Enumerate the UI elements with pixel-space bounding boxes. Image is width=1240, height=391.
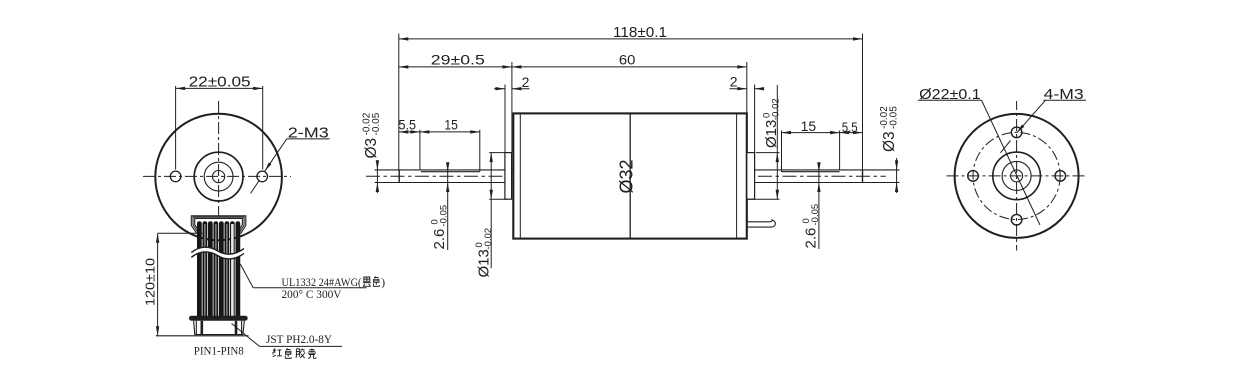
right boss ring (747, 153, 755, 200)
svg-text:2.6: 2.6 (431, 229, 448, 250)
svg-text:): ) (381, 277, 385, 289)
horizontal centerline (143, 175, 291, 177)
svg-text:JST PH2.0-8Y: JST PH2.0-8Y (266, 334, 333, 346)
connector top bar (192, 316, 246, 321)
svg-text:5.5: 5.5 (399, 117, 417, 132)
glyph 色 (2) (285, 349, 291, 359)
svg-text:5.5: 5.5 (842, 120, 858, 135)
right can seam (736, 113, 738, 238)
svg-text:Ø3: Ø3 (363, 138, 380, 159)
vertical centerline (218, 101, 220, 222)
svg-text:Ø22±0.1: Ø22±0.1 (919, 86, 981, 103)
svg-text:Ø32: Ø32 (616, 159, 636, 193)
boss circle (993, 152, 1041, 200)
dim 29±0.5 and 60 (399, 62, 747, 153)
svg-text:2: 2 (522, 74, 530, 90)
extension line right (262, 86, 264, 170)
cable break wave (191, 247, 244, 259)
shaft circle (213, 171, 225, 183)
dim Ø13 left (489, 153, 506, 268)
bearing circle (204, 162, 233, 191)
glyph 黑 (363, 277, 371, 286)
left shaft top edge + extension (375, 169, 514, 171)
dim Ø3 left (376, 160, 378, 193)
dash through top hole (1001, 141, 1011, 153)
left boss ring (505, 153, 512, 200)
dim 2.6 left (447, 163, 449, 250)
mounting hole right (257, 171, 268, 182)
main centerline (366, 175, 886, 177)
hole top (1011, 127, 1022, 138)
wire band (8 wires) (197, 221, 240, 317)
extension line left (175, 86, 177, 170)
dim 2 right (730, 85, 764, 153)
boss circle (194, 152, 243, 201)
baseline under connector (156, 335, 249, 337)
svg-text:2.6: 2.6 (803, 228, 820, 249)
hole right (1055, 171, 1066, 182)
connector body (194, 321, 245, 335)
right shaft flat (782, 171, 840, 173)
hole left (968, 171, 979, 182)
left can seam (519, 113, 521, 238)
left shaft end (398, 170, 400, 183)
svg-text:Ø13: Ø13 (476, 249, 493, 277)
label 4-M3 (1017, 100, 1086, 133)
svg-text:15: 15 (801, 119, 817, 134)
right shaft end (862, 170, 864, 183)
label 2-M3 (265, 139, 330, 171)
bearing circle (1002, 161, 1031, 190)
dimension line (176, 87, 263, 89)
glyph 红 (273, 349, 282, 357)
svg-text:22±0.05: 22±0.05 (189, 73, 251, 90)
vertical centerline (1016, 101, 1018, 251)
svg-text:-0.05: -0.05 (438, 205, 449, 227)
right shaft bottom edge + extension (747, 182, 900, 184)
svg-text:15: 15 (444, 118, 458, 133)
bolt circle (973, 132, 1060, 219)
glyph 壳 (308, 349, 316, 359)
left shaft bottom edge + extension (375, 182, 514, 184)
svg-text:-0.02: -0.02 (483, 228, 494, 250)
body center joint (629, 113, 631, 238)
label JST connector (232, 324, 343, 347)
mounting hole left (170, 171, 181, 182)
dim 118±0.1 (399, 34, 863, 170)
glyph 胶 (296, 349, 305, 359)
dim 5.5 / 15 left (399, 130, 480, 172)
svg-text:29±0.5: 29±0.5 (431, 52, 485, 68)
dimension 22±0.05 (176, 86, 263, 170)
label Ø22±0.1 (918, 100, 1040, 225)
svg-text:-0.05: -0.05 (810, 204, 821, 226)
svg-text:118±0.1: 118±0.1 (613, 24, 667, 41)
left shaft flat (421, 171, 480, 173)
svg-text:60: 60 (619, 52, 636, 68)
svg-text:-0.05: -0.05 (371, 112, 382, 135)
dim Ø13 right (748, 85, 780, 199)
horizontal centerline (947, 175, 1087, 177)
dimension 120±10 (158, 233, 203, 335)
shaft circle (1011, 170, 1023, 182)
terminal pin bottom right (747, 219, 772, 222)
svg-text:-0.05: -0.05 (888, 106, 899, 129)
outer circle (955, 114, 1079, 238)
dim 15 / 5.5 right (782, 130, 863, 171)
svg-text:UL1332 24#AWG(: UL1332 24#AWG( (282, 277, 362, 289)
hole bottom (1011, 214, 1022, 225)
svg-text:PIN1-PIN8: PIN1-PIN8 (194, 345, 244, 357)
label UL1332 wire (240, 264, 366, 288)
svg-text:2: 2 (730, 74, 738, 90)
wire guide collar (191, 216, 246, 234)
svg-text:120±10: 120±10 (143, 258, 158, 306)
motor body (513, 113, 747, 238)
right shaft top edge + extension (747, 169, 900, 171)
svg-text:Ø13: Ø13 (763, 120, 780, 148)
dim 2 left (494, 85, 530, 153)
hole centerline dash through right hole (251, 180, 260, 194)
svg-text:-0.02: -0.02 (770, 98, 781, 120)
svg-text:4-M3: 4-M3 (1044, 86, 1084, 103)
motor outer circle (155, 114, 282, 241)
dim 2.6 right (818, 163, 820, 249)
svg-text:2-M3: 2-M3 (288, 125, 329, 142)
dim Ø3 right (896, 158, 898, 193)
svg-text:200° C 300V: 200° C 300V (282, 289, 343, 301)
label Ø32 (616, 159, 636, 193)
glyph 色 (373, 277, 379, 287)
svg-text:Ø3: Ø3 (881, 131, 898, 152)
